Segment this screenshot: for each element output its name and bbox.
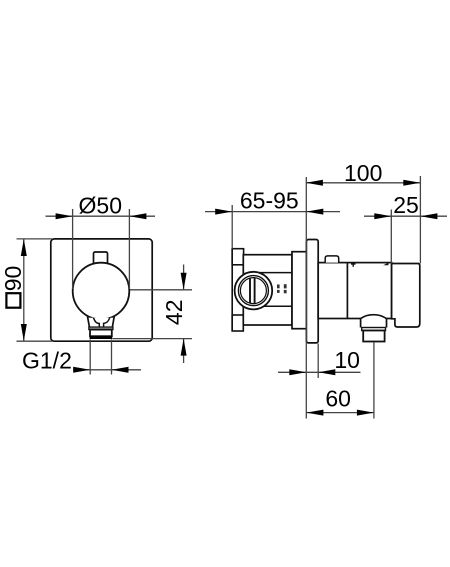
svg-text:42: 42	[161, 300, 187, 326]
arrow G1/2 right	[112, 367, 129, 373]
handle	[392, 264, 420, 328]
svg-text:65-95: 65-95	[240, 187, 299, 213]
flange ring against plate	[292, 252, 306, 329]
arrow 42 top	[181, 273, 187, 290]
screw T-mark	[351, 263, 356, 265]
arrow dim Ø50 right	[129, 213, 146, 219]
ext lines square90	[17, 238, 53, 240]
arrow 42 bottom	[181, 339, 187, 356]
outlet thread (side)	[363, 331, 384, 342]
dimension texts	[0, 160, 419, 412]
outlet collar	[89, 327, 113, 330]
wall line / bracket spine	[231, 249, 233, 331]
svg-text:90: 90	[0, 266, 26, 292]
dim line 42	[183, 265, 185, 290]
rough-in body	[243, 255, 292, 325]
outlet bottom cap	[90, 336, 113, 339]
inlet circles (concentric)	[235, 272, 273, 310]
dim line Ø50	[46, 215, 156, 217]
svg-text:G1/2: G1/2	[22, 348, 72, 374]
arrow 10 left	[289, 369, 306, 375]
25	[390, 210, 392, 264]
dim line square90	[23, 239, 25, 341]
65-95	[231, 205, 233, 249]
wall plate front (square escutcheon)	[51, 239, 152, 341]
arrow 60 left	[306, 410, 323, 416]
svg-text:100: 100	[344, 160, 382, 186]
outlet collar (side)	[362, 328, 386, 331]
ext lines 42	[130, 289, 192, 291]
arrow 25 right	[420, 213, 437, 219]
outlet neck	[87, 316, 114, 327]
arrow 100 right	[403, 180, 420, 186]
valve body cylinder	[318, 263, 391, 319]
square symbol of square90 label	[6, 293, 20, 308]
outlet dome shoulder (side)	[361, 315, 387, 328]
arrows	[21, 180, 438, 416]
arrow 10 right	[318, 369, 335, 375]
60	[373, 342, 375, 419]
arrow square90 bottom	[21, 324, 27, 341]
10	[317, 344, 319, 379]
arrow 65-95 left	[215, 209, 232, 215]
svg-text:25: 25	[393, 192, 419, 218]
svg-text:60: 60	[325, 386, 351, 412]
top mounting tab	[232, 249, 243, 265]
body division line	[346, 263, 348, 319]
arrow 65-95 right	[306, 209, 323, 215]
triangle mark	[383, 263, 388, 266]
screw slot	[249, 278, 251, 303]
wall plate side (10 thick)	[306, 240, 318, 343]
arrow dim Ø50 left	[56, 213, 73, 219]
cartridge lines behind circle	[259, 272, 292, 274]
ext+dim G1/2	[89, 340, 91, 375]
svg-text:Ø50: Ø50	[79, 193, 122, 219]
top tab of knob	[94, 252, 108, 265]
100	[419, 176, 421, 263]
arrow 60 right	[357, 410, 374, 416]
arrow 100 left	[306, 180, 323, 186]
button bump on top	[325, 256, 339, 263]
brand stamp marks	[277, 284, 287, 293]
outlet thread G1/2	[90, 330, 112, 337]
svg-text:10: 10	[334, 347, 360, 373]
bottom mounting tab	[232, 315, 243, 331]
arrow G1/2 left	[73, 367, 90, 373]
knob circle Ø50	[73, 263, 130, 320]
arrow square90 top	[21, 239, 27, 256]
arrow 25 left	[374, 213, 391, 219]
ext lines Ø50	[72, 209, 74, 289]
